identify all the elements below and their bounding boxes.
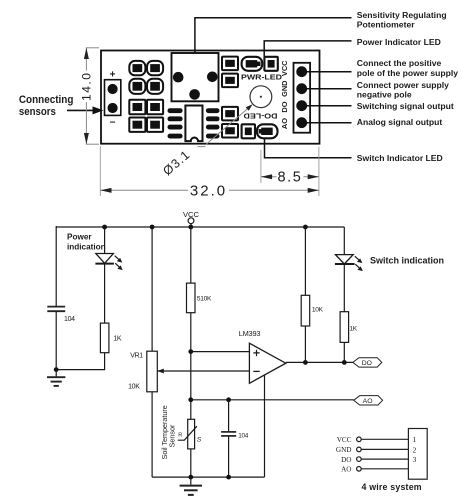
- wire VCC stub: [190, 224, 192, 227]
- wire switch LED branch top: [343, 227, 345, 255]
- node divider to AO: [188, 397, 193, 402]
- leader line from pin DO: [307, 105, 352, 107]
- leader line from pin AO: [307, 122, 352, 124]
- dimension 32.0 line: [100, 189, 319, 191]
- U1 pad right 2: [206, 116, 220, 121]
- VCC terminal circle: [188, 218, 194, 224]
- leader line from pin VCC: [307, 71, 352, 73]
- svg-text:Sensitivity Regulating: Sensitivity Regulating: [357, 10, 447, 20]
- svg-text:8.5: 8.5: [278, 170, 303, 186]
- connector J1 (sensor connector) body: [105, 80, 121, 116]
- leader dash: [198, 146, 206, 148]
- potentiometer RP1 body: [172, 53, 219, 101]
- svg-text:Power Indicator LED: Power Indicator LED: [357, 37, 441, 47]
- svg-text:VCC: VCC: [337, 436, 352, 444]
- svg-text:1K: 1K: [349, 325, 357, 332]
- svg-text:AO: AO: [280, 118, 289, 129]
- wire to non-inverting input: [191, 351, 250, 353]
- pad array row2 col2: [147, 79, 163, 94]
- wire R4 bottom: [343, 342, 345, 362]
- wire left branch lower: [55, 311, 57, 369]
- wire op-amp output / DO net: [286, 361, 353, 363]
- svg-text:pole of the power supply: pole of the power supply: [357, 68, 458, 78]
- connector terminal VCC: [357, 437, 362, 442]
- node DO-R10K: [303, 360, 308, 365]
- svg-text:GND: GND: [336, 446, 352, 454]
- svg-text:AO: AO: [341, 466, 351, 474]
- node ground-left: [54, 367, 59, 372]
- LED D2 light arrows: [355, 256, 363, 271]
- LED D1 power indication: [95, 254, 114, 264]
- svg-text:1: 1: [413, 435, 417, 444]
- power LED D1 footprint square pad: [264, 57, 277, 71]
- resistor R2 510K: [187, 283, 196, 313]
- svg-text:Sensor: Sensor: [168, 424, 177, 447]
- wire R3 bottom: [304, 326, 306, 362]
- svg-text:Potentiometer: Potentiometer: [357, 19, 415, 29]
- wire op-amp V- pin to ground rail: [264, 375, 266, 478]
- wire DO to pin 3: [361, 458, 408, 460]
- node DO-R4: [342, 360, 347, 365]
- switch LED D2 footprint bullet pad: [257, 124, 278, 138]
- wire top VCC rail: [56, 226, 344, 228]
- svg-text:Switch indication: Switch indication: [370, 255, 444, 265]
- dimension 32.0 extension lines: [99, 146, 101, 196]
- switch LED D2 footprint square pad: [242, 124, 255, 138]
- pin header J2 body: [294, 63, 311, 133]
- wire R1 to ground rail: [56, 353, 104, 370]
- svg-text:PWR-LED: PWR-LED: [241, 72, 283, 81]
- svg-text:2: 2: [413, 445, 417, 454]
- dimension text 8.5: [277, 171, 304, 184]
- transistor U1 TO-92 outline: [185, 106, 202, 142]
- ground symbol left: [47, 370, 65, 386]
- svg-text:Connect the positive: Connect the positive: [357, 58, 442, 68]
- svg-text:Connecting: Connecting: [19, 94, 74, 106]
- header pin AO: [296, 117, 307, 128]
- wire VR1 top: [151, 227, 153, 351]
- op-amp - input mark: [253, 370, 259, 372]
- svg-text:−: −: [110, 118, 116, 129]
- U1 pad left 1: [168, 108, 183, 113]
- resistor R3 10K: [301, 295, 310, 326]
- header pin GND: [296, 83, 307, 94]
- node rail-R510K: [188, 225, 193, 230]
- svg-text:AO: AO: [363, 398, 373, 405]
- pad array row3 col1: [129, 100, 145, 114]
- power LED D1 footprint bullet pad: [242, 57, 263, 71]
- U1 pad right 4: [206, 134, 220, 139]
- wire VR1 bottom to ground rail: [151, 392, 153, 477]
- wire RT1 bottom: [190, 449, 192, 477]
- svg-text:104: 104: [64, 316, 75, 323]
- svg-text:LM393: LM393: [239, 329, 261, 338]
- node rail-D1: [102, 225, 107, 230]
- svg-text:3: 3: [413, 455, 417, 464]
- node AO-C2: [226, 397, 231, 402]
- dimension text 14.0 (rotated): [80, 71, 92, 103]
- pad array row4 col2: [147, 118, 163, 132]
- connector terminal AO: [357, 467, 362, 472]
- pad pair lower-right 1: [222, 107, 238, 121]
- svg-text:GND: GND: [280, 80, 289, 97]
- wire GND to pin 2: [361, 448, 408, 450]
- wire AO to pin 4: [361, 468, 408, 470]
- AO output flag: [354, 396, 383, 405]
- wire D1 cathode to R1: [104, 264, 106, 324]
- pad array row4 col1: [129, 118, 145, 132]
- wire R2 top: [190, 227, 192, 283]
- sensor RT1 diagonal stroke: [178, 426, 197, 440]
- U1 pad left 2: [168, 116, 183, 121]
- wire R2 bottom / divider: [190, 313, 192, 420]
- U1 pad right 1: [206, 108, 220, 113]
- ground symbol bottom: [180, 477, 202, 495]
- svg-text:sensors: sensors: [19, 106, 56, 118]
- connector J1 pad +: [108, 84, 118, 94]
- svg-text:Switch Indicator LED: Switch Indicator LED: [357, 153, 443, 163]
- svg-text:R: R: [178, 433, 182, 439]
- leader line from pin GND: [307, 88, 352, 90]
- U1 pad left 3: [168, 125, 183, 130]
- svg-text:+: +: [110, 70, 116, 81]
- op-amp + input mark: [253, 350, 259, 356]
- leader line to sensitivity potentiometer: [195, 18, 352, 53]
- pad pair upper-right 1: [222, 57, 238, 71]
- pad pair upper-right 2: [222, 74, 238, 88]
- svg-text:Power: Power: [67, 233, 92, 242]
- dimension 14.0 line: [85, 48, 87, 144]
- mounting hole: [250, 86, 272, 108]
- wire C2 bottom: [228, 436, 230, 477]
- svg-text:DO: DO: [341, 456, 351, 464]
- svg-text:Connect power supply: Connect power supply: [357, 80, 449, 90]
- wire C2 top: [228, 400, 230, 432]
- node ground-C2: [226, 475, 231, 480]
- connector J1 pad -: [108, 103, 118, 113]
- connector terminal DO: [357, 457, 362, 462]
- wire D2 cathode to R4: [343, 264, 345, 312]
- svg-text:1K: 1K: [113, 335, 122, 342]
- node divider to +input: [188, 349, 193, 354]
- dimension 8.5 extension line: [260, 150, 262, 183]
- sensor RT1 body: [188, 419, 195, 449]
- leader line to mounting hole: [206, 107, 250, 145]
- svg-text:DO: DO: [362, 360, 372, 367]
- node rail-R10K: [303, 225, 308, 230]
- node ground-RT1: [188, 475, 193, 480]
- capacitor C1 104: [47, 307, 65, 312]
- wire AO net: [191, 399, 354, 401]
- mounting hole center mark: [260, 96, 262, 98]
- potentiometer pad right: [207, 72, 218, 83]
- DO output flag: [353, 358, 382, 367]
- svg-text:Analog signal output: Analog signal output: [357, 117, 443, 127]
- VR1 wiper arrow: [157, 369, 164, 374]
- wire R3 top: [304, 227, 306, 295]
- potentiometer pad bottom: [189, 89, 200, 100]
- svg-text:Ø3.1: Ø3.1: [160, 147, 193, 178]
- resistor R4 1K: [340, 312, 349, 343]
- svg-text:VCC: VCC: [280, 60, 289, 76]
- svg-text:indication: indication: [67, 242, 106, 251]
- wire VR1 wiper to inverting input: [157, 370, 249, 372]
- svg-text:14.0: 14.0: [79, 72, 93, 101]
- connector CN1 body: [408, 429, 427, 480]
- svg-text:10K: 10K: [128, 383, 140, 390]
- svg-text:DO: DO: [280, 101, 289, 112]
- header pin VCC: [296, 66, 307, 77]
- svg-text:10K: 10K: [312, 307, 324, 314]
- svg-text:4 wire system: 4 wire system: [362, 482, 422, 492]
- pad array row3 col2: [147, 100, 163, 114]
- resistor R1 1K: [100, 323, 109, 353]
- svg-text:DO-LED: DO-LED: [243, 111, 278, 120]
- op-amp U2 LM393: [249, 343, 285, 383]
- pad array row1 col1: [129, 61, 145, 75]
- capacitor C2 104: [221, 432, 236, 436]
- wire D1 anode: [104, 227, 106, 254]
- svg-text:Switching signal output: Switching signal output: [357, 101, 454, 111]
- wire left branch upper: [55, 226, 57, 306]
- svg-text:32.0: 32.0: [190, 183, 227, 200]
- svg-text:VR1: VR1: [130, 353, 143, 360]
- node rail-VR1: [150, 225, 155, 230]
- LED D1 light arrows: [115, 256, 123, 270]
- arrow from Connecting sensors to connector: [67, 109, 94, 111]
- dimension text 32.0: [188, 184, 229, 197]
- LED D2 switch indication: [335, 255, 355, 264]
- U1 pad right 3: [206, 125, 220, 130]
- U1 pad left 4: [168, 134, 183, 139]
- potentiometer VR1 body: [147, 351, 158, 392]
- pad array row1 col2: [147, 61, 163, 75]
- pad pair lower-right 2: [222, 124, 238, 138]
- dimension 8.5 line: [261, 176, 319, 178]
- PCB board outline: [101, 51, 320, 144]
- wire VCC to pin 1: [361, 438, 408, 440]
- svg-text:104: 104: [238, 432, 249, 439]
- dimension 14.0 extension ticks: [86, 47, 99, 49]
- wire bottom ground rail: [152, 476, 264, 478]
- svg-text:510K: 510K: [197, 296, 212, 303]
- potentiometer pad left: [173, 72, 184, 83]
- connector terminal GND: [357, 447, 362, 452]
- pad array row2 col1: [129, 79, 145, 94]
- leader line to power indicator LED: [264, 41, 351, 57]
- leader line to switch indicator LED: [265, 139, 352, 158]
- svg-text:S: S: [197, 436, 202, 443]
- header pin DO: [296, 100, 307, 111]
- svg-text:negative pole: negative pole: [357, 90, 412, 100]
